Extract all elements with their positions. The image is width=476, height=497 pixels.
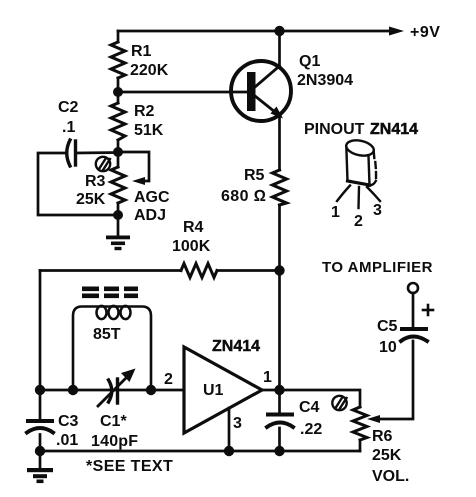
svg-text:51K: 51K bbox=[134, 122, 164, 139]
svg-text:25K: 25K bbox=[76, 191, 106, 208]
svg-text:140pF: 140pF bbox=[91, 433, 138, 450]
transistor Q1 bbox=[231, 61, 291, 121]
svg-text:3: 3 bbox=[373, 202, 382, 219]
svg-text:10: 10 bbox=[379, 339, 397, 356]
capacitor C2 bbox=[67, 140, 76, 166]
svg-text:*SEE TEXT: *SEE TEXT bbox=[86, 458, 173, 475]
potentiometer R3 bbox=[111, 167, 125, 203]
svg-text:VOL.: VOL. bbox=[372, 468, 409, 485]
wire emitter down to R5 bbox=[278, 115, 281, 170]
junction node I (pin3/rail) bbox=[224, 446, 234, 456]
svg-text:+9V: +9V bbox=[410, 24, 440, 41]
wire C3 to bottom rail bbox=[39, 435, 42, 470]
node R6 wiper arrowhead bbox=[367, 415, 380, 423]
svg-text:R5: R5 bbox=[244, 167, 265, 184]
junction node F2 bbox=[68, 385, 78, 395]
wire left rail down bbox=[39, 271, 42, 420]
wire C4 bottom bbox=[278, 428, 281, 451]
svg-text:85T: 85T bbox=[93, 326, 121, 343]
ferrite core bars bbox=[82, 287, 138, 299]
capacitor C5 bbox=[401, 329, 427, 341]
plus sign C5 bbox=[423, 305, 433, 315]
resistor R5 bbox=[273, 170, 287, 205]
junction node F1 bbox=[35, 385, 45, 395]
wire C2 left loop bbox=[38, 153, 118, 215]
svg-text:ADJ: ADJ bbox=[134, 207, 166, 224]
junction node G (C3 bottom) bbox=[35, 446, 45, 456]
wire R2 to node C bbox=[117, 140, 120, 167]
svg-text:.01: .01 bbox=[56, 432, 78, 449]
svg-text:1: 1 bbox=[263, 369, 272, 386]
junction node H (pin1) bbox=[274, 385, 284, 395]
svg-text:2N3904: 2N3904 bbox=[297, 72, 353, 89]
svg-text:AGC: AGC bbox=[134, 189, 170, 206]
screw adjust symbol R3 bbox=[96, 157, 110, 171]
ground under C3 bbox=[27, 468, 53, 483]
resistor R2 bbox=[111, 103, 125, 140]
wire R3 to node D bbox=[117, 203, 120, 237]
svg-text:ZN414: ZN414 bbox=[212, 338, 260, 355]
potentiometer R6 bbox=[353, 407, 367, 440]
wire U1 pin3 down bbox=[228, 408, 231, 451]
wire R4 line bbox=[40, 269, 181, 272]
svg-text:ZN414: ZN414 bbox=[370, 121, 418, 138]
svg-text:C5: C5 bbox=[377, 318, 398, 335]
svg-text:R3: R3 bbox=[85, 173, 106, 190]
svg-text:2: 2 bbox=[354, 213, 363, 230]
svg-text:25K: 25K bbox=[372, 447, 402, 464]
node TO AMPLIFIER terminal bbox=[408, 283, 418, 293]
wire C4 top bbox=[278, 390, 281, 412]
wire base of Q1 bbox=[118, 91, 248, 94]
op-amp U1 ZN414 bbox=[184, 347, 262, 433]
junction node B (base divider) bbox=[113, 87, 123, 97]
wire +9V top rail bbox=[118, 30, 392, 33]
svg-text:.22: .22 bbox=[300, 421, 322, 438]
wire bottom rail bbox=[40, 450, 360, 453]
svg-text:U1: U1 bbox=[203, 382, 224, 399]
svg-text:100K: 100K bbox=[172, 238, 211, 255]
svg-text:C3: C3 bbox=[58, 413, 79, 430]
resistor R1 bbox=[111, 42, 125, 78]
wire pin1 to R6 top bbox=[280, 390, 360, 407]
node C1 arrowhead bbox=[121, 369, 136, 383]
svg-text:TO AMPLIFIER: TO AMPLIFIER bbox=[322, 259, 433, 276]
svg-text:R2: R2 bbox=[134, 103, 155, 120]
svg-text:3: 3 bbox=[233, 415, 242, 432]
wire R1 to node B bbox=[117, 78, 120, 103]
svg-text:C1*: C1* bbox=[100, 413, 127, 430]
svg-text:680 Ω: 680 Ω bbox=[221, 188, 266, 205]
wire R6 bottom bbox=[359, 440, 362, 451]
pinout drawing ZN414 package bbox=[337, 138, 380, 208]
junction node J (C4 bottom) bbox=[274, 446, 284, 456]
svg-text:2: 2 bbox=[164, 371, 173, 388]
svg-text:PINOUT: PINOUT bbox=[304, 121, 365, 138]
wire R5 to node E bbox=[278, 205, 281, 390]
svg-text:R4: R4 bbox=[183, 219, 204, 236]
capacitor C4 bbox=[267, 415, 293, 428]
wire C5 top bbox=[412, 293, 415, 327]
resistor R4 bbox=[181, 264, 217, 278]
wire collector to +9V bbox=[278, 31, 281, 67]
junction node collector rail bbox=[274, 26, 284, 36]
svg-text:Q1: Q1 bbox=[299, 53, 320, 70]
wire R3 wiper loop bbox=[118, 152, 149, 181]
wire tank line (node F) bbox=[40, 389, 184, 392]
variable capacitor C1 bbox=[98, 378, 126, 406]
svg-text:C4: C4 bbox=[299, 399, 320, 416]
wire from top rail into R1 bbox=[117, 31, 120, 42]
svg-text:1: 1 bbox=[331, 204, 340, 221]
node +9V arrowhead bbox=[389, 27, 404, 36]
inductor L1 85T coil bbox=[73, 306, 151, 390]
svg-text:R1: R1 bbox=[131, 43, 152, 60]
svg-text:220K: 220K bbox=[130, 62, 169, 79]
svg-text:.1: .1 bbox=[62, 119, 75, 136]
capacitor C3 bbox=[27, 421, 53, 433]
wire U1 output pin1 bbox=[262, 389, 280, 392]
svg-text:R6: R6 bbox=[372, 428, 393, 445]
wire R6 wiper from C5 bbox=[376, 341, 413, 419]
junction node D (R3 bottom) bbox=[113, 210, 123, 220]
wire C2 right plate to node C bbox=[76, 151, 119, 154]
svg-text:C2: C2 bbox=[58, 99, 79, 116]
junction node C (R2/R3/C2) bbox=[113, 147, 123, 157]
junction node F3 bbox=[146, 385, 156, 395]
ground under R3 bbox=[106, 236, 130, 251]
junction node E (R4/R5) bbox=[274, 265, 284, 275]
screw adjust symbol R6 bbox=[332, 396, 346, 410]
node R3 wiper arrowhead bbox=[132, 177, 145, 185]
